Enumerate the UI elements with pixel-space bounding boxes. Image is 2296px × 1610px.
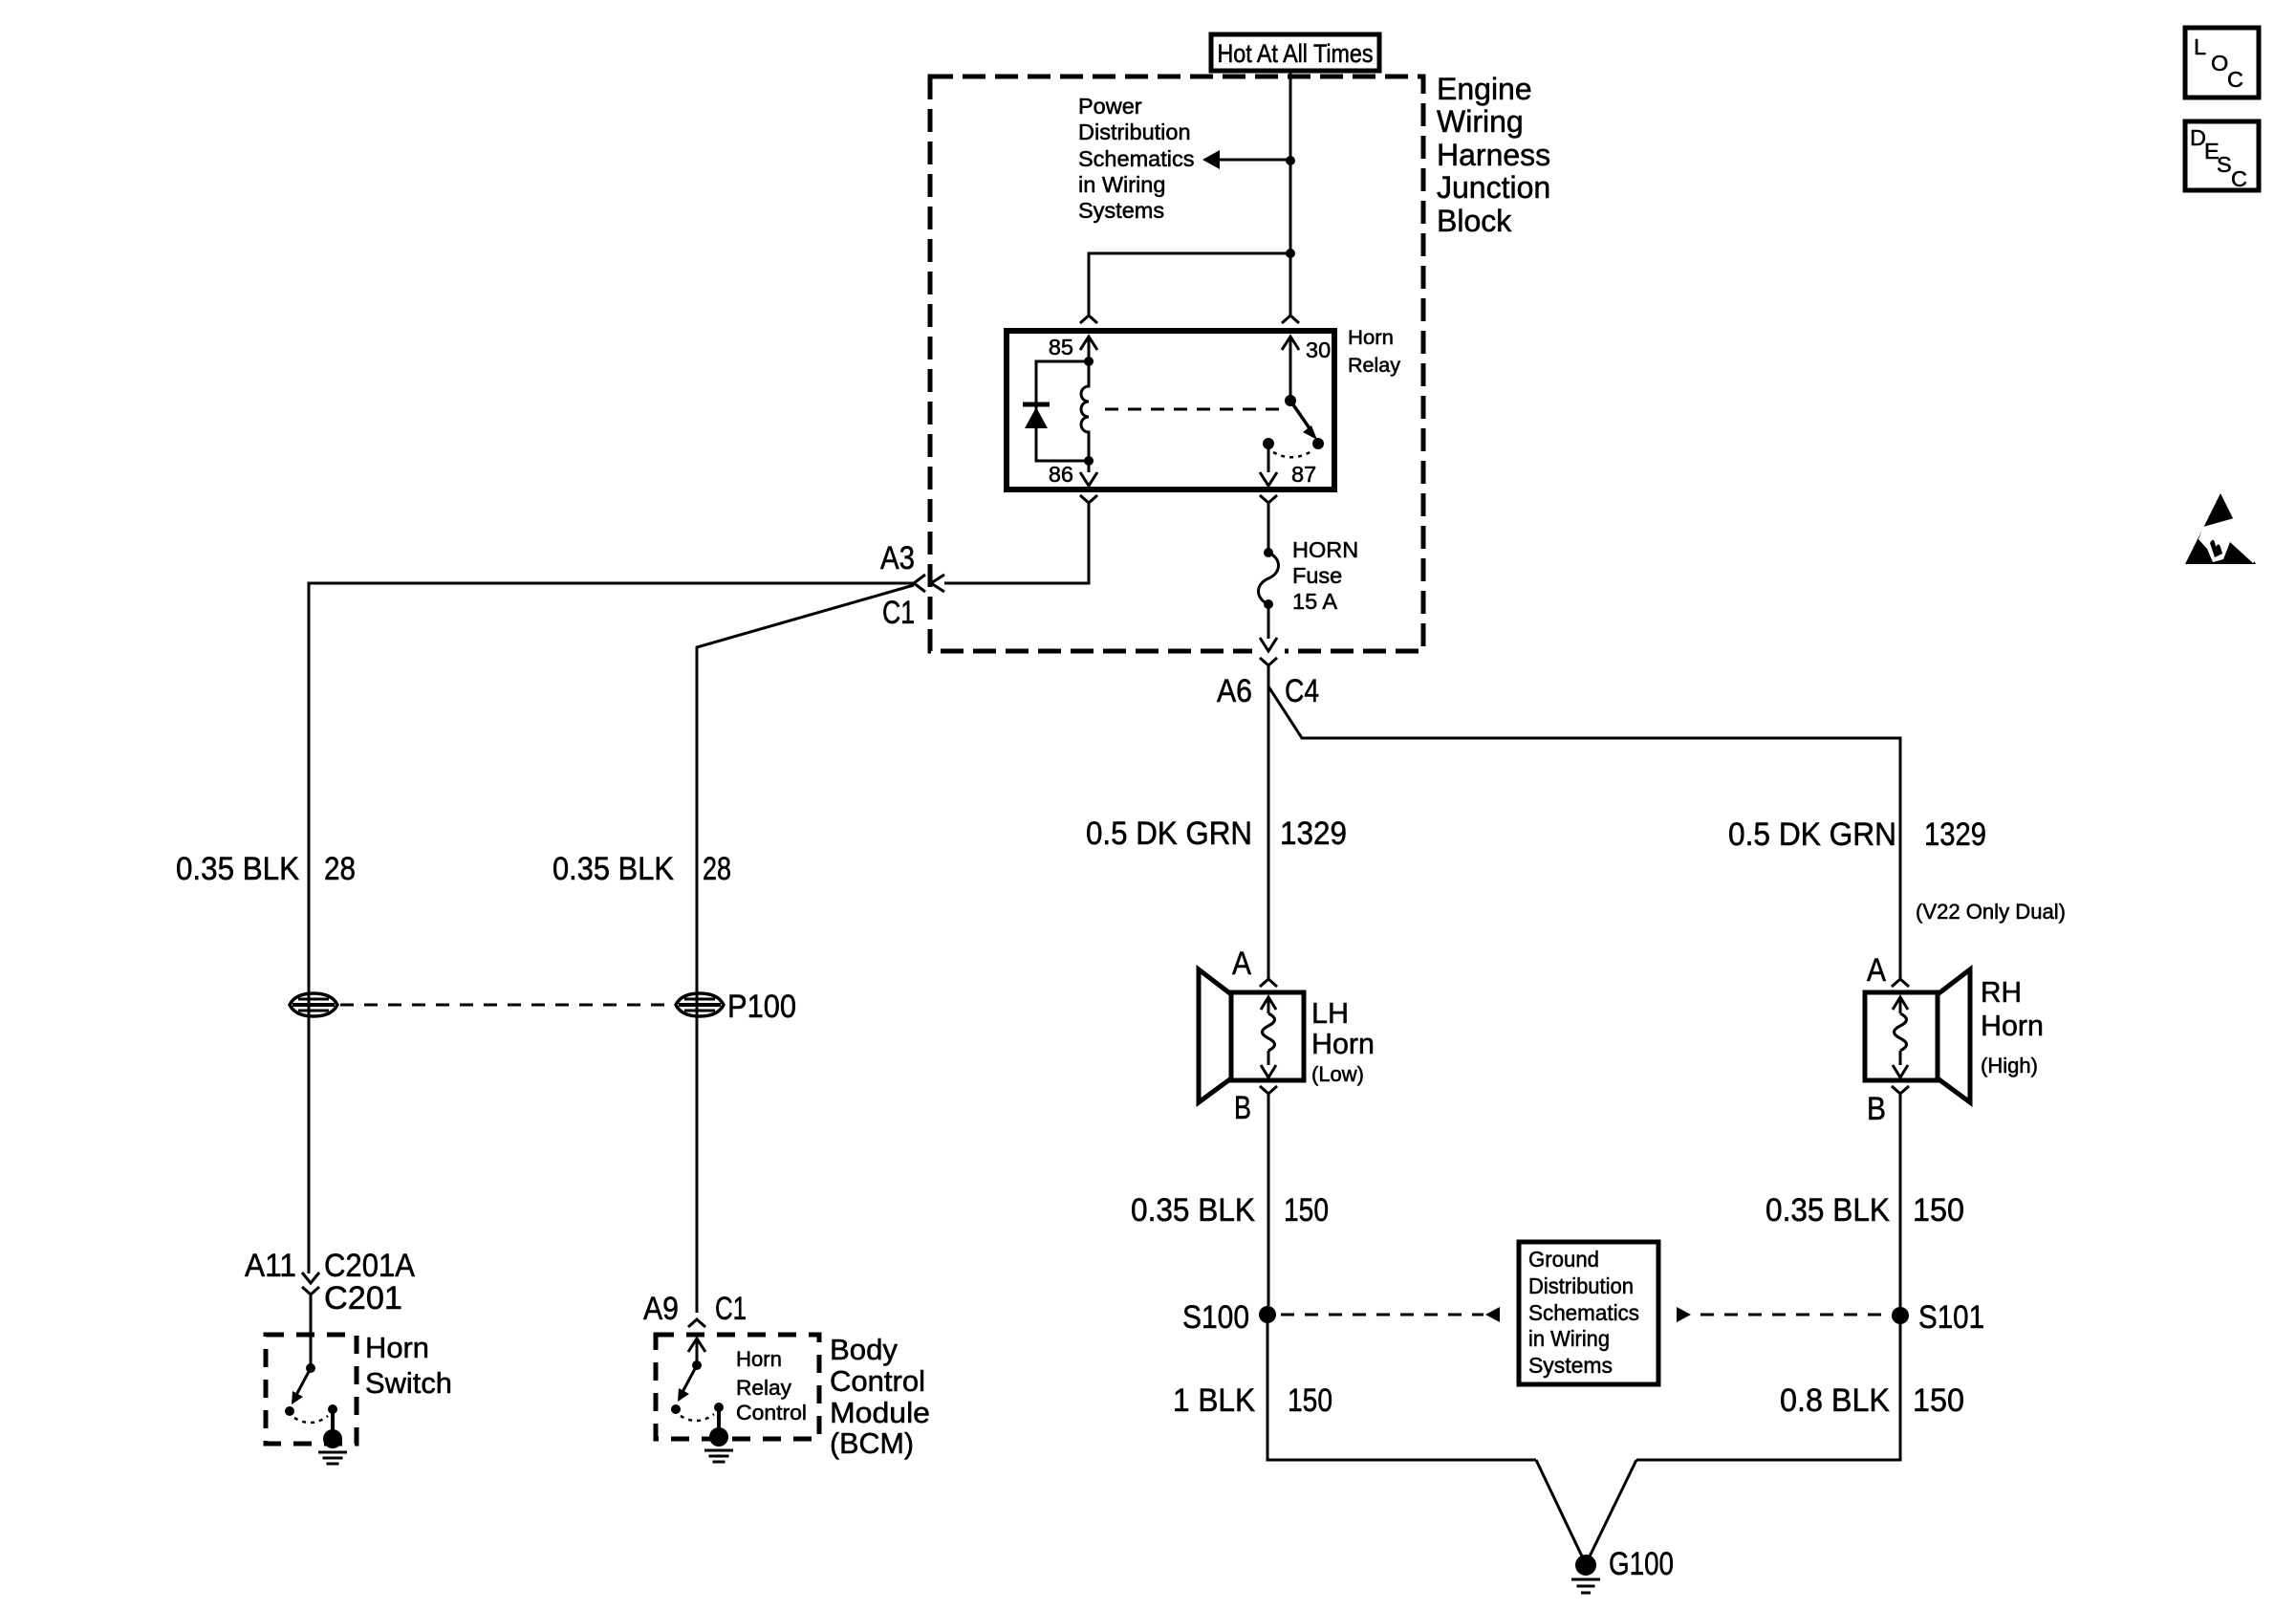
svg-text:150: 150 [1288,1382,1332,1419]
node: junction feeding relay coil branch [1286,249,1295,258]
svg-text:C: C [2227,67,2243,92]
pass-through grommet P100 (right) [676,993,724,1016]
pin 85 arrow (into relay) [1080,337,1097,350]
connector female at RH horn pin B [1892,1086,1909,1094]
svg-text:C4: C4 [1285,673,1319,709]
connector female at LH horn pin B [1260,1086,1277,1094]
node: junction on feed wire (to power distribution) [1286,156,1295,165]
svg-text:Relay: Relay [736,1376,791,1400]
svg-text:B: B [1867,1091,1886,1127]
svg-text:Harness: Harness [1437,138,1550,172]
connector male arrow at A3 (junction block edge) [931,575,944,592]
svg-text:in Wiring: in Wiring [1078,172,1165,197]
wire: S101 down and across to G100 [1636,1316,1900,1460]
BCM switch blade (horn relay control) [682,1365,697,1392]
svg-text:Schematics: Schematics [1078,146,1194,171]
svg-text:A: A [1232,946,1251,982]
svg-text:87: 87 [1291,462,1316,487]
connector male arrow C201A [302,1273,319,1283]
wire: S100 down and across to G100 [1267,1315,1536,1460]
junction block dashed outline (Engine Wiring Harness Junction Block) [930,76,1423,651]
svg-text:1 BLK: 1 BLK [1173,1382,1255,1419]
svg-text:Horn: Horn [1311,1027,1375,1060]
wire: diagonal branch from A3/C1 to BCM [697,585,914,1313]
svg-text:150: 150 [1913,1192,1964,1229]
svg-text:Module: Module [830,1396,930,1429]
svg-text:B: B [1234,1090,1251,1126]
svg-text:0.35 BLK: 0.35 BLK [1765,1192,1890,1229]
horn switch ground stem [331,1409,335,1434]
node: pin 87 junction [1263,438,1274,449]
Ground Distribution Schematics box [1519,1242,1658,1384]
node: fuse bottom terminal [1264,599,1273,609]
connector female at relay pin 30 [1282,315,1299,323]
ground G100 terminal [1575,1555,1596,1576]
relay switch blade [1290,401,1311,431]
svg-text:1329: 1329 [1924,816,1986,853]
fuse HORN 15 A element [1259,553,1279,604]
svg-text:A11: A11 [245,1248,296,1284]
svg-text:C201A: C201A [324,1248,415,1284]
svg-text:0.35 BLK: 0.35 BLK [176,851,299,887]
relay coil winding [1081,361,1089,461]
BCM ground stem [717,1407,721,1432]
connector female at C4 side [1260,658,1277,665]
svg-text:A: A [1867,952,1886,989]
node: splice S100 [1259,1306,1276,1323]
wire: pin 87 to HORN fuse [1267,503,1270,553]
svg-text:L: L [2194,34,2206,59]
svg-text:G100: G100 [1609,1546,1674,1582]
svg-text:Control: Control [736,1401,807,1425]
svg-text:150: 150 [1913,1382,1964,1419]
relay actuation dashed link [1105,408,1284,411]
RH horn coil element [1893,997,1908,1010]
wire: branch to relay pin 85 [1089,253,1289,315]
svg-text:Body: Body [830,1333,898,1366]
arrowhead out of ground distribution box (right) [1677,1307,1691,1322]
svg-text:A6: A6 [1217,673,1252,709]
connector female below pin 87 [1260,495,1277,503]
node: relay contact 87 [1312,438,1324,449]
RH horn body [1865,992,1938,1080]
svg-text:Fuse: Fuse [1292,563,1342,588]
Hot At All Times box [1211,34,1379,71]
node: BCM pole contact [671,1404,681,1414]
wire: branch to RH horn (diagonal + run) [1268,686,1900,979]
dashed pairing line between P100 grommets [340,1004,670,1007]
svg-text:C: C [2231,166,2247,191]
node: coil bottom junction [1084,456,1094,466]
node: horn switch ground contact [328,1404,337,1414]
RH horn speaker cone [1938,969,1970,1102]
wire: C201 to horn switch [310,1295,313,1368]
wire: left diagonal into G100 [1536,1460,1584,1560]
svg-text:S101: S101 [1918,1299,1984,1336]
connector male arrow at A6 (junction block edge) [1260,638,1277,651]
connector female at RH horn pin A [1892,979,1909,987]
svg-text:Junction: Junction [1437,170,1550,205]
dashed throw arc (BCM driver) [681,1414,714,1421]
connector female below pin 86 [1080,495,1097,503]
connector female at C1 side [914,575,925,592]
svg-text:A3: A3 [880,540,915,577]
svg-text:0.5 DK GRN: 0.5 DK GRN [1086,816,1252,852]
svg-text:Horn: Horn [1981,1009,2044,1042]
white gap in dashed border at A6 crossing [1252,644,1285,657]
wire: diode branch loop [1036,361,1089,461]
svg-text:Distribution: Distribution [1528,1273,1634,1298]
dashed link from ground distribution box to S101 [1700,1314,1892,1316]
svg-text:15 A: 15 A [1292,589,1337,614]
svg-text:86: 86 [1049,462,1073,487]
svg-text:(Low): (Low) [1311,1062,1364,1086]
svg-text:Horn: Horn [736,1347,782,1371]
DESC reference box [2185,121,2259,190]
node: splice S101 [1892,1307,1909,1324]
svg-text:Wiring: Wiring [1437,104,1524,139]
svg-text:LH: LH [1311,996,1349,1030]
LH horn coil element [1261,997,1276,1010]
node: horn switch pole contact [285,1406,294,1416]
wire: long run from A3/C1 toward horn switch [309,583,914,1273]
svg-text:Horn: Horn [365,1331,429,1364]
wire: fuse to connector A6/C4 [1267,604,1270,639]
svg-text:Horn: Horn [1348,326,1394,349]
relay box (Horn Relay) [1007,331,1334,490]
LH horn body [1231,992,1304,1080]
svg-text:0.35 BLK: 0.35 BLK [1131,1192,1255,1229]
connector female at LH horn pin A [1260,979,1277,987]
svg-text:Block: Block [1437,204,1512,238]
BCM output arrow toward A9 [688,1338,705,1352]
svg-text:Engine: Engine [1437,72,1532,106]
wire: A6/C4 down to LH horn [1267,665,1270,979]
svg-text:150: 150 [1284,1192,1329,1229]
dashed throw arc (relay contact) [1273,451,1311,457]
svg-text:S: S [2217,152,2232,177]
node: coil top junction [1084,357,1094,366]
wire: relay pin 86 to connector A3/C1 [944,503,1089,583]
node: horn switch input [306,1363,315,1373]
LH horn speaker cone [1199,969,1231,1102]
svg-text:0.8 BLK: 0.8 BLK [1780,1382,1890,1419]
horn switch dashed box [266,1335,357,1444]
svg-text:P100: P100 [727,989,796,1025]
svg-text:Distribution: Distribution [1078,120,1191,144]
dashed link from S100 to ground distribution box [1281,1314,1484,1316]
svg-text:28: 28 [703,851,731,887]
wire: battery feed from Hot At All Times down to relay pin 30 [1289,71,1292,315]
svg-text:O: O [2211,51,2228,76]
svg-text:(High): (High) [1981,1054,2038,1077]
svg-text:A9: A9 [643,1291,679,1327]
node: BCM driver pivot [692,1360,702,1370]
arrowhead into ground distribution box (left) [1485,1307,1500,1322]
svg-text:HORN: HORN [1292,537,1358,562]
svg-text:Control: Control [830,1364,925,1398]
svg-text:28: 28 [324,851,356,887]
pin 86 arrow (out of relay) [1088,461,1091,472]
BCM dashed box [656,1335,819,1439]
pin 30 arrow (into relay) [1282,337,1299,350]
svg-text:S100: S100 [1182,1299,1249,1336]
svg-text:(BCM): (BCM) [830,1426,914,1460]
wire: right diagonal into G100 [1588,1460,1636,1560]
wire: arrow to Power Distribution Schematics [1220,159,1289,162]
svg-text:Hot At All Times: Hot At All Times [1218,39,1374,68]
horn switch blade [296,1368,311,1395]
pass-through grommet P100 (left) [290,993,337,1016]
connector female at relay pin 85 [1080,315,1097,323]
wire: LH horn B to S100 [1267,1094,1270,1306]
ground at horn switch [323,1429,342,1448]
svg-text:Switch: Switch [365,1366,452,1400]
connector female C201 [302,1287,319,1295]
node: BCM ground contact [714,1403,724,1412]
svg-text:Relay: Relay [1348,354,1400,377]
ESD warning symbol [2185,493,2256,564]
svg-text:RH: RH [1981,975,2022,1009]
svg-text:30: 30 [1306,337,1331,362]
svg-text:1329: 1329 [1280,816,1347,852]
svg-text:85: 85 [1049,335,1073,359]
node: fuse top terminal [1264,548,1273,557]
pin 87 arrow (out of relay) [1267,444,1270,472]
ground at BCM [709,1427,728,1447]
svg-text:C201: C201 [324,1280,402,1316]
svg-text:0.5 DK GRN: 0.5 DK GRN [1728,816,1896,853]
svg-text:Ground: Ground [1528,1247,1599,1272]
svg-text:Schematics: Schematics [1528,1300,1639,1325]
svg-text:C1: C1 [882,595,915,631]
LOC reference box [2185,28,2259,98]
svg-text:in Wiring: in Wiring [1528,1326,1610,1351]
dashed throw arc (horn switch) [294,1416,328,1423]
svg-text:C1: C1 [715,1291,747,1327]
svg-text:0.35 BLK: 0.35 BLK [552,851,674,887]
svg-text:Systems: Systems [1078,198,1164,223]
diode CR (clamp across coil) [1023,402,1050,407]
svg-text:Systems: Systems [1528,1353,1613,1378]
connector female at BCM A9/C1 [688,1319,705,1327]
svg-text:(V22 Only Dual): (V22 Only Dual) [1916,900,2066,924]
svg-text:Power: Power [1078,94,1142,119]
wire: RH horn B to S101 [1899,1094,1902,1307]
node: relay common pivot (pin 30) [1285,395,1296,406]
